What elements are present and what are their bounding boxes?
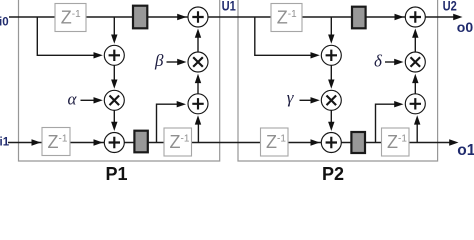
register R4 (P2 bottom gray) [351,132,365,153]
wire node J7 riser to adder A8 [376,104,396,142]
delay Z1 (P1 top) [55,4,86,32]
wire adder A8 to multiplier M4 [414,82,416,94]
wire node J3 riser to adder A4 [157,104,179,142]
arrowhead into adder A7 left [311,139,320,145]
wire multiplier M1 to adder A3 [113,110,115,124]
wire P2 tap drop from node J5 to adder A6 [255,17,313,55]
arrowhead into adder A8 left [394,101,403,107]
arrowhead into multiplier M1 top [111,80,117,89]
arrowhead into multiplier M3 top [328,80,334,89]
register R2 (P1 bottom gray) [134,131,147,153]
adder A8 (P2 right lower) [405,94,425,114]
register R3 (P2 top gray) [352,7,366,29]
wire multiplier M4 to adder A5 [414,36,416,52]
multiplier M2 (beta) [188,52,208,72]
adder A4 (P1 right lower) [188,94,208,114]
arrowhead into adder A3 left [94,139,103,145]
arrowhead into adder A8 bottom [414,115,420,124]
arrowhead into adder A4 bottom [195,115,201,124]
delay Z3 (P1 bottom right) [164,128,192,156]
multiplier M4 (delta) [405,52,425,72]
block P1 border [19,0,220,161]
wire adder A2 to multiplier M1 [113,65,115,82]
arrowhead into adder A5 bottom [412,29,418,38]
svg-text:i0: i0 [0,17,9,29]
wire P2 drop from node J6 into adder A6 top [330,17,332,38]
arrowhead output o1 [449,139,458,145]
coefficient beta arrow [167,61,181,63]
arrowhead into adder A2 top [111,35,117,44]
coefficient delta arrow [385,61,397,63]
svg-text:U1: U1 [222,0,237,13]
adder A5 (P2 top right) [405,7,425,27]
svg-text:δ: δ [374,52,383,71]
arrowhead into adder A3 top [111,122,117,131]
arrowhead into multiplier M2 bottom [195,74,201,83]
multiplier M3 (gamma) [321,90,341,110]
svg-text:P1: P1 [106,164,128,184]
wire multiplier M3 to adder A7 [330,110,332,124]
svg-text:o1: o1 [457,142,474,159]
multiplier M1 (alpha) [104,90,124,110]
arrowhead into adder A1 bottom [195,29,201,38]
adder A7 (P2 bottom middle) [321,133,341,153]
arrowhead into delay Z2 left (from i1) [32,139,41,145]
adder A2 (P1 middle top) [104,45,124,65]
svg-text:α: α [68,89,78,108]
delay Z6 (P2 bottom right) [382,128,410,156]
arrowhead into adder A7 top [328,122,334,131]
coefficient gamma arrow [300,99,314,101]
adder A6 (P2 middle top) [321,45,341,65]
wire bottom rail i1 to o1 [8,142,451,144]
arrowhead into adder A2 left [94,52,103,58]
svg-text:β: β [154,51,164,70]
arrowhead into adder A5 left [395,14,404,20]
wire node J4 riser to adder A4 bottom [197,123,199,143]
delay Z5 (P2 bottom left) [261,128,289,156]
arrowhead into multiplier M4 bottom [412,74,418,83]
wire multiplier M2 to adder A1 [197,36,199,52]
wire adder A6 to multiplier M3 [330,65,332,82]
arrowhead into adder A6 left [311,52,320,58]
block P2 border [238,0,438,161]
adder A1 (P1 top right) [188,7,208,27]
delay Z4 (P2 top) [271,4,302,32]
svg-text:U2: U2 [443,0,457,13]
arrowhead into adder A1 left [177,14,186,20]
svg-text:i1: i1 [0,137,10,149]
coefficient alpha arrow [81,99,97,101]
adder A3 (P1 bottom middle) [104,133,124,153]
wire P1 tap drop from node J1 to adder A2 [37,17,95,55]
svg-text:o0: o0 [457,19,474,35]
arrowhead output o0 [453,14,462,20]
arrowhead into adder A6 top [328,35,334,44]
arrowhead into adder A4 left [177,101,186,107]
svg-text:γ: γ [287,88,295,107]
wire node J8 riser to adder A8 bottom [416,123,418,143]
svg-text:P2: P2 [322,164,344,184]
wire top rail i0 to o0 [9,16,455,18]
delay Z2 (P1 bottom left) [42,128,70,156]
wire P1 drop from node J2 into adder A2 top [113,17,115,38]
wire adder A4 to multiplier M2 [197,82,199,94]
register R1 (P1 top gray) [133,6,147,29]
